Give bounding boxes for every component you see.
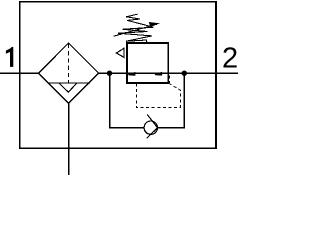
regulator flow arrowhead left (128, 72, 135, 76)
pilot dashed stub at regulator outlet (168, 75, 170, 83)
regulator flow arrowhead right (155, 72, 163, 76)
spring (118, 14, 154, 43)
adjustment arrow head (149, 22, 161, 26)
bypass wire left+bottom-left (110, 73, 145, 128)
port label 1 (6, 47, 13, 67)
node A junction dot (107, 71, 112, 76)
check valve circle (144, 121, 157, 134)
bypass wire bottom-right+right (157, 73, 184, 128)
check valve seat V (147, 115, 158, 139)
water separator triangle (59, 83, 77, 92)
filter separator line (47, 82, 90, 84)
regulator U body (127, 43, 168, 83)
node B junction dot (182, 71, 187, 76)
enclosure frame (20, 2, 216, 149)
drain wire (68, 103, 70, 175)
adjustment arrow shaft (114, 24, 157, 36)
port 1 wire (0, 72, 39, 74)
vent triangle (116, 48, 124, 57)
svg-text:2: 2 (222, 43, 238, 75)
main wire filter to port 2 (99, 72, 238, 74)
filter F diamond (39, 43, 99, 103)
pilot dashed line (136, 83, 180, 107)
filter element dashed line (68, 44, 70, 83)
